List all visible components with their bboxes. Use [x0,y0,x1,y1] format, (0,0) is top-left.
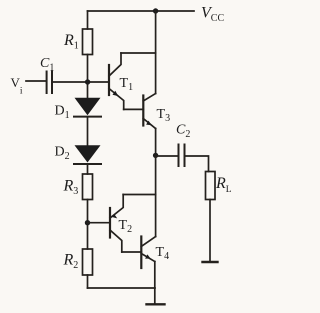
svg-text:T4: T4 [156,245,170,262]
wire bottom rail [88,287,156,289]
wire R3 to R2 through bias node [87,200,89,250]
node input junction [85,79,90,84]
capacitor C1 [47,72,52,94]
svg-text:T2: T2 [119,218,133,235]
wire output bus down to T4 collector [155,155,157,236]
wire C2 to RL [186,156,209,172]
wire bias node to base of T2 [88,222,111,224]
svg-text:R3: R3 [63,178,79,197]
node bias junction [85,220,90,225]
svg-text:R2: R2 [63,252,79,271]
wire D2 to R3 [87,165,89,174]
wire C1 to base of T1 [53,81,109,83]
wire Vcc bus down to T3 collector [155,11,157,94]
wire R1 top lead [87,11,89,29]
wire T2 collector to T4 base [122,251,142,253]
wire T2 emitter to output bus [123,194,155,196]
svg-text:R1: R1 [63,32,79,51]
svg-text:T3: T3 [157,107,171,124]
wire T4 emitter down to ground [154,262,156,305]
capacitor C2 [179,145,185,167]
wire T1 emitter to T3 base [124,108,144,110]
transistor T4 [141,237,155,269]
diode D2 [74,145,101,164]
diode D1 [74,98,101,117]
svg-text:C2: C2 [176,123,190,141]
wire RL bottom lead [209,200,211,262]
resistor R1 [83,29,93,55]
wire D1 to D2 [87,118,89,147]
node output junction [153,153,158,158]
node junction on Vcc rail [153,8,158,13]
wire T3 emitter to output node [155,129,157,156]
transistor T2 [110,195,123,253]
svg-text:RL: RL [215,175,232,195]
wire Vcc rail [88,10,195,12]
svg-text:D1: D1 [55,104,70,122]
resistor R3 [83,174,93,200]
svg-text:C1: C1 [40,56,54,74]
transistor T3 [143,94,155,129]
svg-text:T1: T1 [120,76,134,93]
transistor T1 [109,53,124,109]
svg-text:Vi: Vi [11,75,23,97]
ground load [203,261,218,263]
wire T1 collector to Vcc bus [121,52,156,54]
wire R2 to bottom rail [87,275,89,288]
resistor RL [206,172,216,200]
wire output node to C2 [156,155,177,157]
svg-text:D2: D2 [55,145,70,163]
ground main [147,303,165,305]
resistor R2 [83,249,93,275]
svg-text:VCC: VCC [201,4,224,23]
wire R1 bottom lead to input node and D1 [87,55,89,99]
wire input from Vi to C1 [26,80,46,82]
